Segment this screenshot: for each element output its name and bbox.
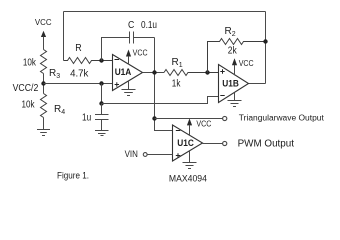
VCC arrow (left rail) [41, 31, 46, 50]
svg-text:U1A: U1A [115, 67, 132, 77]
resistor R3 10k [23, 50, 60, 81]
node: R2 right / feedback vertical [263, 39, 267, 43]
terminal: VIN [143, 153, 147, 157]
wire: R3 bottom to VCC/2 node [43, 74, 45, 94]
wire: VIN to U1C + input [147, 154, 173, 156]
svg-text:R1: R1 [172, 57, 183, 69]
wire: triangularwave output [155, 118, 223, 120]
svg-text:R2: R2 [225, 26, 236, 38]
ground (U1A) [122, 81, 136, 96]
svg-text:MAX4094: MAX4094 [169, 173, 207, 184]
wire: U1B output to feedback rail [249, 83, 266, 85]
resistor R4 10k [22, 94, 66, 118]
wire: U1A + input down to lower rail [101, 84, 103, 104]
wire: U1A output [143, 72, 165, 74]
svg-text:R3: R3 [49, 68, 60, 80]
node: R1 / R2 / U1B + input [205, 70, 209, 74]
op-amp U1A [113, 55, 143, 91]
svg-text:VCC: VCC [133, 47, 148, 57]
wire: feedback right vertical [265, 12, 267, 84]
svg-text:VCC: VCC [196, 119, 211, 129]
svg-text:PWM Output: PWM Output [238, 138, 295, 149]
svg-text:0.1u: 0.1u [141, 20, 157, 31]
resistor R 4.7k [64, 43, 113, 79]
svg-text:Figure 1.: Figure 1. [57, 170, 89, 181]
VCC arrow (U1C) [187, 118, 212, 135]
svg-text:U1B: U1B [222, 79, 239, 89]
ground (below R4) [37, 118, 50, 136]
wire: feedback left vertical [63, 12, 65, 61]
svg-text:4.7k: 4.7k [70, 68, 89, 79]
wire: VCC/2 rail to U1A + input [44, 83, 113, 85]
op-amp U1B [219, 65, 249, 103]
ground (below 1u) [95, 131, 109, 136]
svg-text:2k: 2k [228, 46, 238, 57]
node VCC/2 [41, 81, 45, 85]
wire: U1A output node down to triangularwave node [154, 73, 156, 119]
node: U1A non-inverting input [99, 81, 103, 85]
resistor R1 1k [164, 57, 219, 90]
resistor R2 2k [208, 26, 266, 73]
svg-text:VCC/2: VCC/2 [13, 83, 39, 94]
node: triangularwave junction [152, 116, 156, 120]
svg-text:VCC: VCC [239, 58, 254, 68]
svg-text:1u: 1u [82, 113, 91, 124]
svg-text:VIN: VIN [125, 149, 138, 160]
svg-text:Triangularwave Output: Triangularwave Output [239, 113, 325, 122]
VCC arrow (U1A) [126, 47, 148, 64]
svg-text:10k: 10k [22, 100, 36, 111]
capacitor C 0.1u [102, 20, 158, 61]
svg-text:10k: 10k [23, 58, 37, 69]
wire: lower VCC/2 rail to U1B inverting input [102, 97, 219, 104]
wire: feedback top horizontal [64, 11, 266, 13]
wire: down then right to U1C inverting input [155, 119, 173, 131]
node: U1A output [152, 70, 156, 74]
VCC arrow (U1B) [232, 58, 254, 75]
svg-text:R4: R4 [54, 104, 65, 116]
op-amp U1C [173, 125, 203, 161]
capacitor 1u [82, 104, 109, 131]
ground (U1C) [183, 151, 197, 169]
wire: U1C output (PWM) [203, 143, 223, 145]
svg-text:1k: 1k [172, 79, 181, 90]
svg-text:U1C: U1C [177, 138, 194, 148]
terminal: PWM output [223, 141, 227, 145]
node: U1A inverting input / C junction [99, 58, 103, 62]
ground (U1B) [228, 92, 242, 106]
terminal: triangularwave output [223, 116, 227, 120]
wire: C right plate down to U1A output node [154, 38, 156, 73]
node: lower rail junction [99, 101, 103, 105]
svg-text:VCC: VCC [35, 17, 52, 27]
svg-text:C: C [128, 20, 134, 31]
svg-text:R: R [75, 43, 81, 54]
